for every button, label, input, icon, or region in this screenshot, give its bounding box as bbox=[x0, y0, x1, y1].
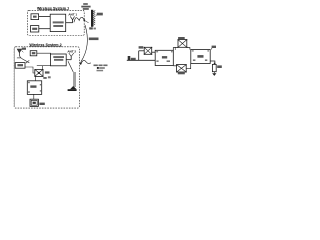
svg-text:ANT 2: ANT 2 bbox=[67, 49, 76, 53]
svg-text:ANT 1: ANT 1 bbox=[68, 13, 77, 17]
